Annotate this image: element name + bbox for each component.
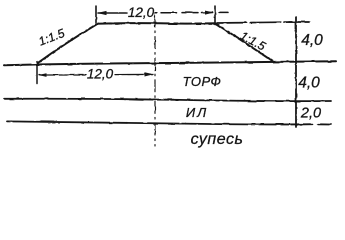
svg-text:ИЛ: ИЛ — [186, 105, 208, 120]
svg-text:12,0: 12,0 — [87, 67, 114, 82]
svg-text:2,0: 2,0 — [300, 106, 321, 122]
svg-text:4,0: 4,0 — [301, 32, 323, 49]
svg-text:супесь: супесь — [191, 131, 244, 148]
svg-text:ТОРФ: ТОРФ — [183, 74, 222, 89]
svg-text:4,0: 4,0 — [298, 75, 320, 92]
svg-text:12,0: 12,0 — [128, 5, 155, 20]
